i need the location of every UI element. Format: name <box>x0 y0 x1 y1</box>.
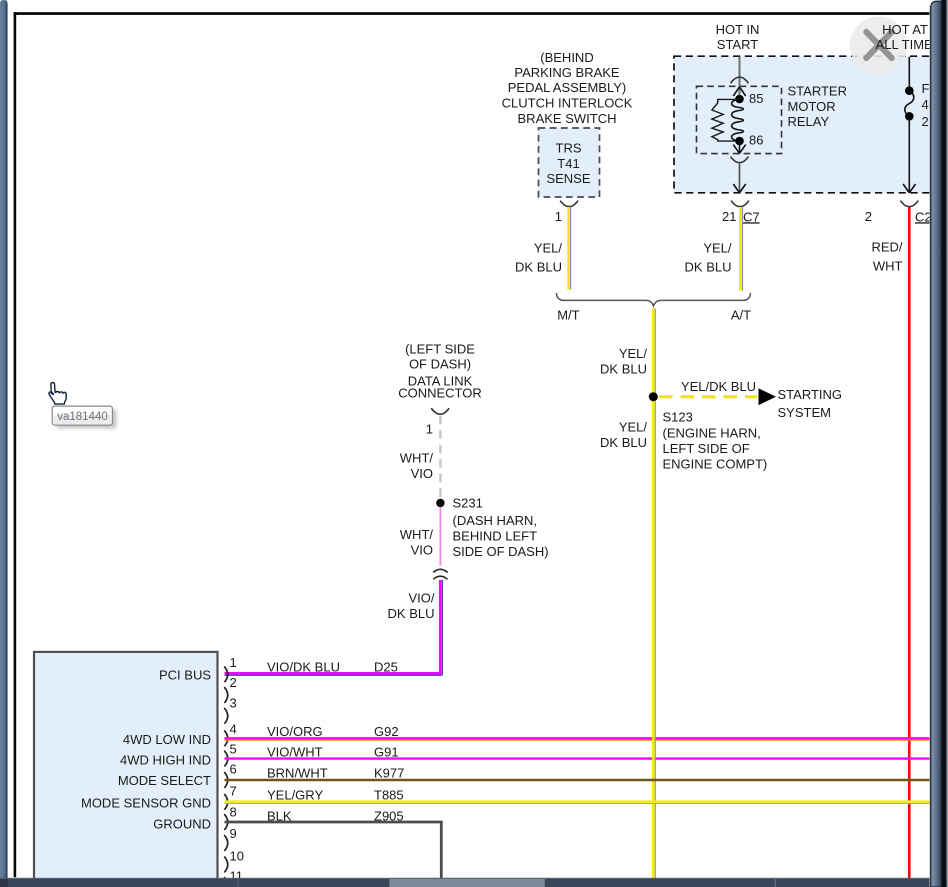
svg-text:PARKING BRAKE: PARKING BRAKE <box>514 65 620 80</box>
svg-text:WHT/: WHT/ <box>400 527 434 542</box>
label VIO/DK BLU (vertical wire) <box>388 591 435 622</box>
PCI connector pin 5 <box>224 742 237 767</box>
svg-text:DK BLU: DK BLU <box>600 435 647 450</box>
label RED/WHT <box>871 240 902 274</box>
svg-text:STARTING: STARTING <box>778 387 843 402</box>
left window edge <box>0 0 8 887</box>
svg-text:S231: S231 <box>453 496 483 511</box>
switch TRS T41 SENSE dashed box <box>539 128 600 197</box>
svg-text:K977: K977 <box>374 766 404 781</box>
wire YEL/GRY pin 7 <box>225 802 931 804</box>
svg-text:4WD HIGH IND: 4WD HIGH IND <box>120 753 211 768</box>
svg-text:2: 2 <box>865 209 872 224</box>
svg-text:(ENGINE HARN,: (ENGINE HARN, <box>663 426 761 441</box>
label VIO/DK BLU D25 <box>267 659 398 674</box>
node fuse top <box>905 86 914 95</box>
connector cup below TRS box <box>560 201 578 207</box>
fuse F (S-curve element) <box>905 91 914 117</box>
svg-text:OF DASH): OF DASH) <box>409 357 471 372</box>
svg-text:WHT/: WHT/ <box>400 451 434 466</box>
wire BRN/WHT pin 6 <box>225 779 931 781</box>
label YEL/DK BLU (M/T wire) <box>515 241 562 275</box>
connector cap at relay coil top <box>731 77 749 83</box>
label YEL/GRY T885 <box>267 787 404 802</box>
arrow out of relay pin 86 <box>733 141 745 153</box>
wire relay to C7 with arrowhead <box>733 164 745 193</box>
wire VIO/ORG pin 4 <box>225 738 931 740</box>
svg-text:MOTOR: MOTOR <box>788 99 836 114</box>
label STARTING SYSTEM <box>778 387 843 420</box>
svg-text:RELAY: RELAY <box>788 114 830 129</box>
svg-text:(DASH HARN,: (DASH HARN, <box>453 513 538 528</box>
close button <box>850 17 908 75</box>
pin 2 / C2 labels <box>865 209 932 225</box>
label WHT/VIO upper <box>400 451 434 482</box>
svg-text:LEFT SIDE OF: LEFT SIDE OF <box>663 441 750 456</box>
svg-text:DK BLU: DK BLU <box>388 606 435 621</box>
svg-text:BRN/WHT: BRN/WHT <box>267 766 328 781</box>
wire WHT/VIO dashed from DLC pin 1 <box>439 416 441 499</box>
label (LEFT SIDE OF DASH) DATA LINK CONNECTOR <box>398 342 482 401</box>
label STARTER MOTOR RELAY <box>788 84 847 129</box>
bottom scrollbar <box>0 878 948 887</box>
svg-text:5: 5 <box>230 742 237 757</box>
label YEL/DK BLU above S123 <box>600 346 647 377</box>
pin label 85 <box>749 91 763 106</box>
fuse value label <box>922 81 948 129</box>
DLC pin 1 label <box>426 421 433 436</box>
wire hot-in-start feed into relay <box>739 57 741 99</box>
svg-text:PEDAL ASSEMBLY): PEDAL ASSEMBLY) <box>508 80 627 95</box>
svg-text:1: 1 <box>426 421 433 436</box>
wire fuse to C2 with arrowhead <box>903 116 915 193</box>
svg-text:2: 2 <box>230 675 237 690</box>
svg-text:CLUTCH INTERLOCK: CLUTCH INTERLOCK <box>502 96 633 111</box>
svg-text:M/T: M/T <box>557 308 579 323</box>
label YEL/DK BLU below S123 <box>600 420 647 451</box>
label HOT AT ALL TIMES <box>876 22 942 52</box>
pin label 86 <box>749 133 763 148</box>
svg-text:3: 3 <box>230 696 237 711</box>
wire YEL/DK BLU from TRS pin 1 (M/T) <box>569 207 571 290</box>
svg-text:WHT: WHT <box>873 259 903 274</box>
svg-text:YEL/: YEL/ <box>534 241 563 256</box>
resistor (relay coil suppression) <box>712 99 740 141</box>
label A/T <box>731 308 751 323</box>
svg-text:VIO: VIO <box>411 543 433 558</box>
svg-text:YEL/: YEL/ <box>703 241 732 256</box>
svg-text:T41: T41 <box>557 156 579 171</box>
svg-text:STARTER: STARTER <box>788 84 847 99</box>
svg-text:C7: C7 <box>743 209 760 224</box>
svg-text:9: 9 <box>230 826 237 841</box>
svg-text:TRS: TRS <box>556 140 582 155</box>
right window edge / scrollbar <box>929 0 948 887</box>
splice node S231 <box>436 499 444 507</box>
svg-text:G92: G92 <box>374 724 399 739</box>
svg-text:YEL/DK BLU: YEL/DK BLU <box>681 379 756 394</box>
PCI connector pin 7 <box>224 784 237 810</box>
connector cup below data link connector <box>431 408 449 414</box>
svg-text:G91: G91 <box>374 744 399 759</box>
svg-text:RED/: RED/ <box>871 240 902 255</box>
wire VIO/WHT pin 5 <box>225 757 931 759</box>
svg-text:7: 7 <box>230 784 237 799</box>
svg-text:D25: D25 <box>374 659 398 674</box>
PCI connector pin 1 <box>224 655 237 682</box>
pin 21 / C7 labels <box>722 209 760 225</box>
svg-text:CONNECTOR: CONNECTOR <box>398 386 482 401</box>
svg-text:HOT AT: HOT AT <box>882 22 928 37</box>
svg-text:SIDE OF DASH): SIDE OF DASH) <box>453 544 549 559</box>
svg-text:(BEHIND: (BEHIND <box>540 50 593 65</box>
svg-text:va181440: va181440 <box>57 411 108 423</box>
svg-text:4: 4 <box>230 721 237 736</box>
svg-text:85: 85 <box>749 91 763 106</box>
label VIO/ORG G92 <box>267 724 399 739</box>
starter motor relay U1 inner dashed box <box>697 86 782 153</box>
svg-text:ENGINE COMPT): ENGINE COMPT) <box>663 457 768 472</box>
label S123 (ENGINE HARN, LEFT SIDE OF ENGINE COMPT) <box>663 410 768 472</box>
TRS pin 1 label <box>555 209 562 224</box>
wire BLK pin 8 to ground <box>225 822 442 878</box>
svg-text:VIO: VIO <box>411 466 433 481</box>
wire YEL/DK BLU dashed branch to starting system <box>659 395 757 398</box>
inline connector chevrons <box>433 569 447 579</box>
label YEL/DK BLU (A/T wire) <box>685 241 732 275</box>
wire YEL/DK BLU trunk from brace to bottom <box>653 309 655 879</box>
svg-text:DK BLU: DK BLU <box>685 260 732 275</box>
relay coil (arcs) <box>732 99 744 141</box>
PCI connector pin 6 <box>224 762 237 788</box>
svg-text:21: 21 <box>722 209 736 224</box>
svg-text:Z905: Z905 <box>374 809 404 824</box>
label HOT IN START <box>716 22 760 52</box>
svg-text:BEHIND LEFT: BEHIND LEFT <box>453 529 538 544</box>
svg-text:8: 8 <box>230 805 237 820</box>
svg-text:SENSE: SENSE <box>546 171 590 186</box>
wire YEL/DK BLU from relay 21 C7 (A/T) <box>741 207 743 291</box>
arrowhead into relay pin 85 <box>733 87 745 96</box>
svg-text:A/T: A/T <box>731 308 751 323</box>
svg-text:DK BLU: DK BLU <box>515 260 562 275</box>
label BRN/WHT K977 <box>267 766 404 781</box>
splice node S123 <box>649 392 658 401</box>
PCI connector pin 10 <box>224 849 244 873</box>
svg-text:(LEFT SIDE: (LEFT SIDE <box>405 342 475 357</box>
svg-text:T885: T885 <box>374 787 404 802</box>
svg-text:10: 10 <box>230 849 244 864</box>
connector C2 cup <box>901 201 919 207</box>
node fuse bottom <box>905 112 914 121</box>
svg-text:1: 1 <box>230 655 237 670</box>
svg-text:1: 1 <box>555 209 562 224</box>
label BLK Z905 <box>267 809 404 824</box>
svg-text:MODE SENSOR GND: MODE SENSOR GND <box>81 796 211 811</box>
svg-text:VIO/ORG: VIO/ORG <box>267 724 323 739</box>
svg-text:HOT IN: HOT IN <box>716 22 760 37</box>
wire VIO/DK BLU horizontal to PCI pin 1 <box>225 673 443 675</box>
svg-text:6: 6 <box>230 762 237 777</box>
wire RED/WHT from C2 <box>908 207 911 878</box>
label WHT/VIO lower <box>400 527 434 558</box>
svg-text:YEL/: YEL/ <box>619 420 648 435</box>
svg-text:S123: S123 <box>663 410 693 425</box>
relay outer dashed box (hot-at-all-times block) <box>674 56 934 193</box>
PCI connector pin 4 <box>224 721 237 746</box>
svg-text:YEL/: YEL/ <box>619 346 648 361</box>
arrow to STARTING SYSTEM <box>759 388 777 405</box>
svg-text:VIO/WHT: VIO/WHT <box>267 744 323 759</box>
PCI connector pin 3 <box>224 696 237 724</box>
svg-text:DK BLU: DK BLU <box>600 362 647 377</box>
brace joining M/T and A/T wires <box>556 293 750 306</box>
svg-text:VIO/DK BLU: VIO/DK BLU <box>267 659 340 674</box>
wire VIO/DK BLU vertical to PCI pin 1 corner <box>440 580 442 675</box>
PCI connector pin 11 <box>224 869 243 887</box>
svg-text:VIO/: VIO/ <box>408 591 434 606</box>
node pin 86 <box>735 137 744 146</box>
svg-text:YEL/GRY: YEL/GRY <box>267 787 323 802</box>
label M/T <box>557 308 579 323</box>
svg-text:START: START <box>717 37 758 52</box>
hand cursor <box>49 383 66 405</box>
PCI connector pin 9 <box>224 826 237 851</box>
label S231 (DASH HARN, BEHIND LEFT SIDE OF DASH) <box>453 496 549 559</box>
svg-text:86: 86 <box>749 133 763 148</box>
PCI connector pin 8 <box>224 805 237 830</box>
PCI module box <box>34 652 218 887</box>
module pin function labels <box>81 668 211 832</box>
svg-text:4WD LOW IND: 4WD LOW IND <box>123 732 211 747</box>
svg-text:MODE SELECT: MODE SELECT <box>118 773 211 788</box>
label BEHIND PARKING BRAKE PEDAL ASSEMBLY CLUTCH INTERLOCK BRAKE SWITCH <box>502 50 633 126</box>
svg-text:BLK: BLK <box>267 809 292 824</box>
label VIO/WHT G91 <box>267 744 399 759</box>
svg-text:BRAKE SWITCH: BRAKE SWITCH <box>518 111 617 126</box>
connector C7 cup <box>731 201 749 207</box>
label YEL/DK BLU (branch) <box>681 379 756 394</box>
svg-text:SYSTEM: SYSTEM <box>778 405 831 420</box>
wire hot-at-all-times feed to fuse <box>908 57 910 91</box>
svg-text:C2: C2 <box>915 209 932 224</box>
wire WHT/VIO solid below S231 <box>439 507 441 565</box>
svg-text:GROUND: GROUND <box>153 817 211 832</box>
node pin 85 <box>735 95 744 104</box>
svg-text:PCI BUS: PCI BUS <box>159 668 211 683</box>
connector cup below relay box <box>731 157 749 163</box>
PCI connector pin 2 <box>224 675 237 703</box>
